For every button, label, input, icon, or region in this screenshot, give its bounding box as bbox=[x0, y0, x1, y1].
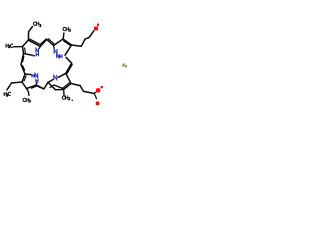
node O hydroxyl top carboxyl bbox=[94, 27, 98, 31]
wire meso bridge C-A upper bbox=[21, 54, 24, 65]
wire ring B alpha stub to N2 bbox=[53, 46, 56, 49]
wire meso bridge A-B rise bbox=[40, 39, 47, 46]
wire ring C left-bottom edge bbox=[22, 82, 27, 89]
node O carbonyl top carboxyl bbox=[97, 24, 99, 27]
wire meso bridge A-B double line bbox=[48, 39, 54, 44]
wire meso bridge C-D right bbox=[44, 82, 48, 89]
node CH3 label ring C methyl bbox=[23, 98, 25, 101]
wire meso bridge C-D left bbox=[36, 85, 44, 89]
wire ring C alpha1 to HN label bbox=[25, 73, 31, 76]
wire zigzag double inner bbox=[67, 65, 72, 74]
wire propionate 1 CH2 b bbox=[81, 37, 89, 46]
wire meso bridge A-B fall bbox=[47, 39, 54, 45]
wire ring D N4 to alpha left bbox=[48, 79, 53, 82]
wire bond to N4 label bbox=[58, 73, 65, 77]
wire zigzag double main bbox=[66, 63, 72, 73]
node CH3 label ring A ethyl terminus bbox=[33, 22, 35, 25]
wire ethyl CH2-CH3 ring C bbox=[7, 83, 12, 90]
wire propionate 2 CH2 b bbox=[80, 86, 84, 92]
node CH3 label ring B methyl bbox=[63, 27, 65, 30]
node H3C label ring C ethyl terminus bbox=[4, 92, 6, 95]
node N1 nitrogen ring A with H below bbox=[36, 48, 39, 52]
node N4 nitrogen ring D bbox=[54, 75, 57, 79]
wire meso bridge A-B rise double line bbox=[41, 39, 46, 44]
wire ring A edge b-b bbox=[23, 40, 29, 47]
wire ring C alpha1-beta1 inner line bbox=[24, 76, 26, 81]
wire ring B left edge bbox=[54, 39, 64, 46]
node O upper bottom carboxylate bbox=[96, 88, 100, 92]
wire meso bridge C-A lower bbox=[21, 65, 25, 75]
wire zigzag NH down-right bbox=[66, 57, 72, 63]
wire ring C alpha1-beta1 edge bbox=[22, 74, 25, 82]
wire ring C inner double lambda bbox=[32, 86, 44, 89]
wire ring B top edge double inner bbox=[63, 41, 70, 46]
wire methyl bond ring A left bbox=[14, 46, 23, 48]
wire ring D bottom edge bbox=[56, 89, 64, 91]
wire propionate 2 to carboxyl C bbox=[84, 91, 95, 93]
wire bond zigzag to ring D alpha bbox=[66, 73, 71, 83]
wire meso bridge C-A lower double line bbox=[23, 66, 25, 71]
wire methyl stem ring D bbox=[63, 90, 65, 96]
wire ring A top edge second line bbox=[29, 39, 41, 45]
wire ethyl CH2 ring C bbox=[12, 82, 23, 83]
wire ring A bottom bond to N1 bbox=[24, 54, 35, 56]
wire carboxylate 2 stub down bbox=[94, 94, 96, 99]
wire ring D right edge double main bbox=[64, 84, 72, 90]
wire ethyl CH2-CH3 ring A bbox=[29, 27, 33, 32]
wire methyl stem ring B bbox=[62, 33, 65, 39]
wire ring D inner double lambda bbox=[50, 85, 63, 89]
node N3 NH nitrogen right bbox=[57, 55, 59, 58]
node O lower bottom carboxylate bbox=[96, 102, 100, 106]
wire meso bridge C-A upper double line bbox=[23, 56, 24, 61]
node N2 nitrogen ring B bbox=[54, 49, 57, 53]
wire carboxylate 2 stub up bbox=[94, 92, 96, 94]
node H3C label ring A methyl bbox=[6, 44, 8, 47]
wire ring C alpha2 to N label bbox=[35, 82, 38, 85]
node CH3 label ring D methyl bbox=[62, 96, 64, 99]
wire ring B top edge double main bbox=[63, 39, 72, 45]
wire ring D left-bottom edge bbox=[48, 82, 56, 89]
node minus charge bottom carboxylate bbox=[101, 86, 103, 88]
node Fe iron ion label bbox=[123, 64, 127, 67]
wire ethyl stem ring A bbox=[27, 32, 29, 40]
wire ring B bond to NH bbox=[65, 45, 72, 55]
wire ring C bottom edge bbox=[27, 85, 36, 88]
wire ring A left edge inner line bbox=[24, 48, 27, 53]
node N5 HN nitrogen ring C with H below bbox=[32, 74, 34, 77]
wire propionate 1 to carboxyl C bbox=[89, 31, 94, 38]
wire ring A top edge bbox=[29, 40, 41, 46]
wire propionate 1 CH2 a bbox=[72, 45, 82, 46]
wire ring A left edge bbox=[23, 47, 24, 54]
wire propionate 2 CH2 a bbox=[71, 84, 80, 86]
node subscript dot of CH3 ring D bbox=[72, 100, 73, 101]
wire methyl stem ring C bbox=[27, 89, 29, 96]
wire ring D right edge double inner bbox=[63, 83, 70, 88]
wire ring A alpha stub to N1 bbox=[38, 46, 41, 48]
